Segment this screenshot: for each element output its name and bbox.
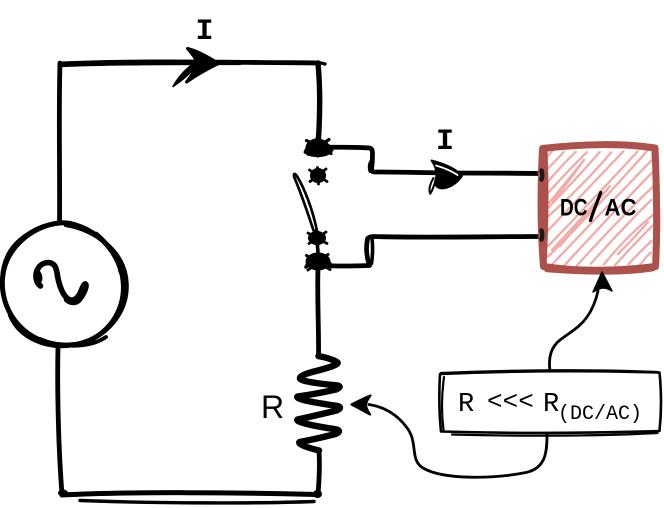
svg-text:(DC/AC): (DC/AC): [558, 403, 642, 426]
junction node B: [306, 253, 331, 271]
wire junction A to bend (upper branch): [322, 147, 445, 173]
junction node A: [306, 139, 332, 157]
annotation box: [439, 371, 661, 433]
label DC/AC slash: [591, 193, 601, 221]
DC/AC converter U1 hatch fill: [546, 150, 654, 266]
wire bottom contact to junction B: [317, 243, 318, 253]
DC/AC converter U1 border: [541, 145, 657, 271]
svg-text:R: R: [543, 390, 559, 420]
arrow I top: [187, 49, 219, 83]
svg-text:I: I: [196, 15, 214, 49]
svg-text:I: I: [436, 125, 454, 159]
switch S1 bottom contact: [308, 231, 327, 246]
svg-text:AC: AC: [605, 195, 637, 222]
wire arrow to DC/AC upper: [440, 171, 539, 176]
arrow annotation to DC/AC: [549, 291, 598, 371]
wire left lower: [58, 346, 62, 494]
wire right upper vertical: [318, 63, 320, 145]
wire top: [60, 62, 318, 64]
wire top overshoot at corner: [318, 63, 325, 65]
svg-text:DC: DC: [560, 195, 588, 222]
wire resistor to bottom: [318, 451, 319, 494]
wire bottom: [62, 493, 316, 495]
wire junction B to DC/AC lower: [323, 237, 539, 267]
arrow annotation to resistor: [369, 405, 547, 478]
arrow I branch: [432, 161, 463, 189]
resistor R zigzag: [297, 356, 340, 451]
switch S1 lever: [294, 174, 317, 231]
switch S1 top contact: [310, 168, 328, 185]
wire bottom right end blob: [313, 490, 322, 498]
wire left upper: [57, 63, 62, 223]
AC source sine symbol: [36, 263, 86, 303]
DC/AC wire stubs into box: [539, 171, 544, 180]
svg-text:<<<: <<<: [487, 387, 534, 417]
svg-text:R: R: [458, 390, 474, 420]
svg-text:R: R: [261, 389, 284, 425]
wire bottom corner blob: [58, 490, 68, 497]
wire junction B down to resistor: [315, 269, 321, 357]
AC source V1 circle: [2, 223, 123, 345]
